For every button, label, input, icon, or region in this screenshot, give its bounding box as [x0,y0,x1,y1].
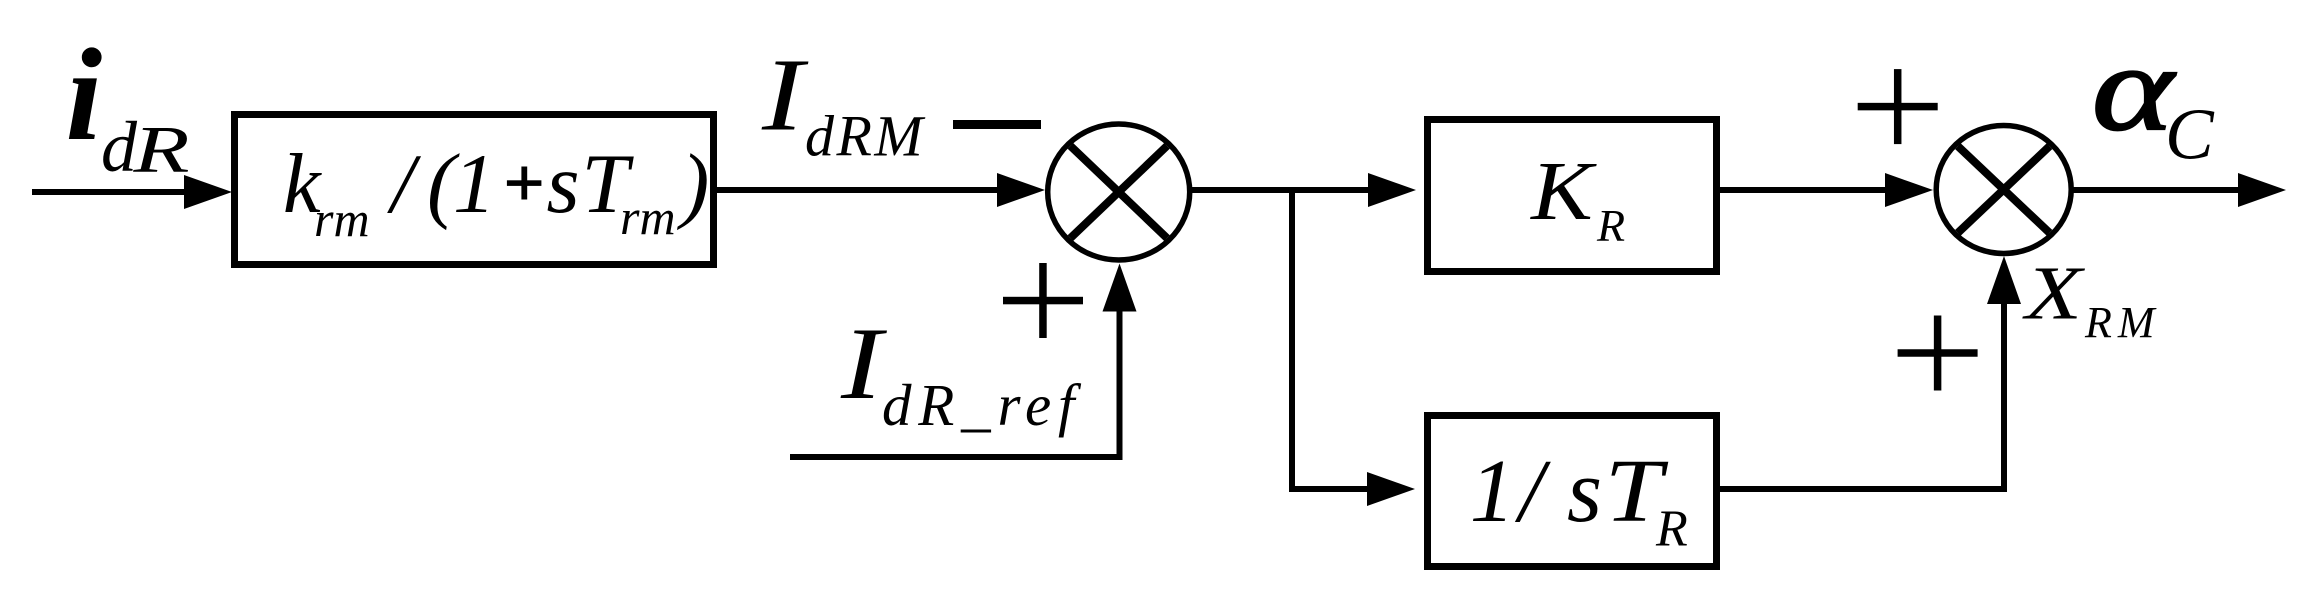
node I_dRM label [761,37,926,168]
node alpha_C output label [2092,21,2215,174]
wire input arrow line [32,189,190,195]
arrowhead into block k_rm [184,175,232,209]
svg-text:1: 1 [1470,442,1515,541]
plus sign below summer2 [1898,316,1978,391]
arrowhead into block 1/sT_R [1367,472,1415,506]
wire 1/sT_R output: right then up into summer2 [1720,302,2004,489]
svg-text:dRM: dRM [805,104,925,169]
svg-text:s: s [547,137,580,231]
svg-text:dR_ref: dR_ref [882,372,1082,438]
wire block1 to summer1 [717,187,999,193]
node i_dR input label [66,21,190,187]
svg-text:I: I [840,307,888,421]
svg-text:rm: rm [620,189,676,245]
summer2 X cross [1958,146,2050,233]
summer1 X cross [1070,146,1167,238]
node X_RM label [2022,251,2160,347]
arrowhead into summer2 bottom [1987,256,2021,304]
arrowhead output [2238,173,2286,207]
block 1/sT_R integrator box [1428,416,1717,567]
wire branch vertical down [1289,187,1295,489]
svg-text:X: X [2022,251,2085,335]
value label 1/sT_R [1470,441,1688,557]
svg-text:α: α [2092,21,2176,156]
summing junction summer2 circle [1936,126,2071,254]
svg-text:R: R [132,112,189,186]
wire K_R output to summer2 [1720,187,1889,193]
value label K_R [1529,145,1625,251]
wire I_dR_ref feed: horizontal then up into summer1 [790,311,1120,457]
svg-text:rm: rm [314,191,370,247]
block K_R gain box [1428,120,1717,272]
plus sign below summer1 [1003,263,1083,338]
plus sign above-left of summer2 [1858,69,1938,144]
svg-text:I: I [761,37,809,152]
wire summer2 output [2071,187,2240,193]
value label k_rm/(1+sT_rm) [283,137,709,247]
svg-text:i: i [66,21,103,168]
node I_dR_ref reference label [840,307,1082,438]
arrowhead into block K_R [1368,173,1416,207]
arrowhead into summer1 bottom [1103,264,1137,312]
svg-text:K: K [1529,145,1597,238]
svg-text:C: C [2165,94,2215,175]
summing junction summer1 circle [1048,124,1190,260]
svg-text:R: R [1655,501,1688,558]
block k_rm/(1+sT_rm) transfer function box [235,115,714,265]
wire summer1 output to branch [1189,187,1374,193]
svg-text:1: 1 [453,137,496,231]
svg-text:d: d [101,107,138,187]
svg-text:RM: RM [2084,298,2161,347]
svg-text:R: R [1596,200,1625,251]
svg-text:): ) [676,137,709,231]
arrowhead into summer1 left [997,173,1045,207]
wire branch to block 1/sT_R [1289,486,1371,492]
svg-text:s: s [1567,442,1602,541]
minus sign at summer1 [953,120,1041,129]
arrowhead into summer2 left [1885,173,1933,207]
